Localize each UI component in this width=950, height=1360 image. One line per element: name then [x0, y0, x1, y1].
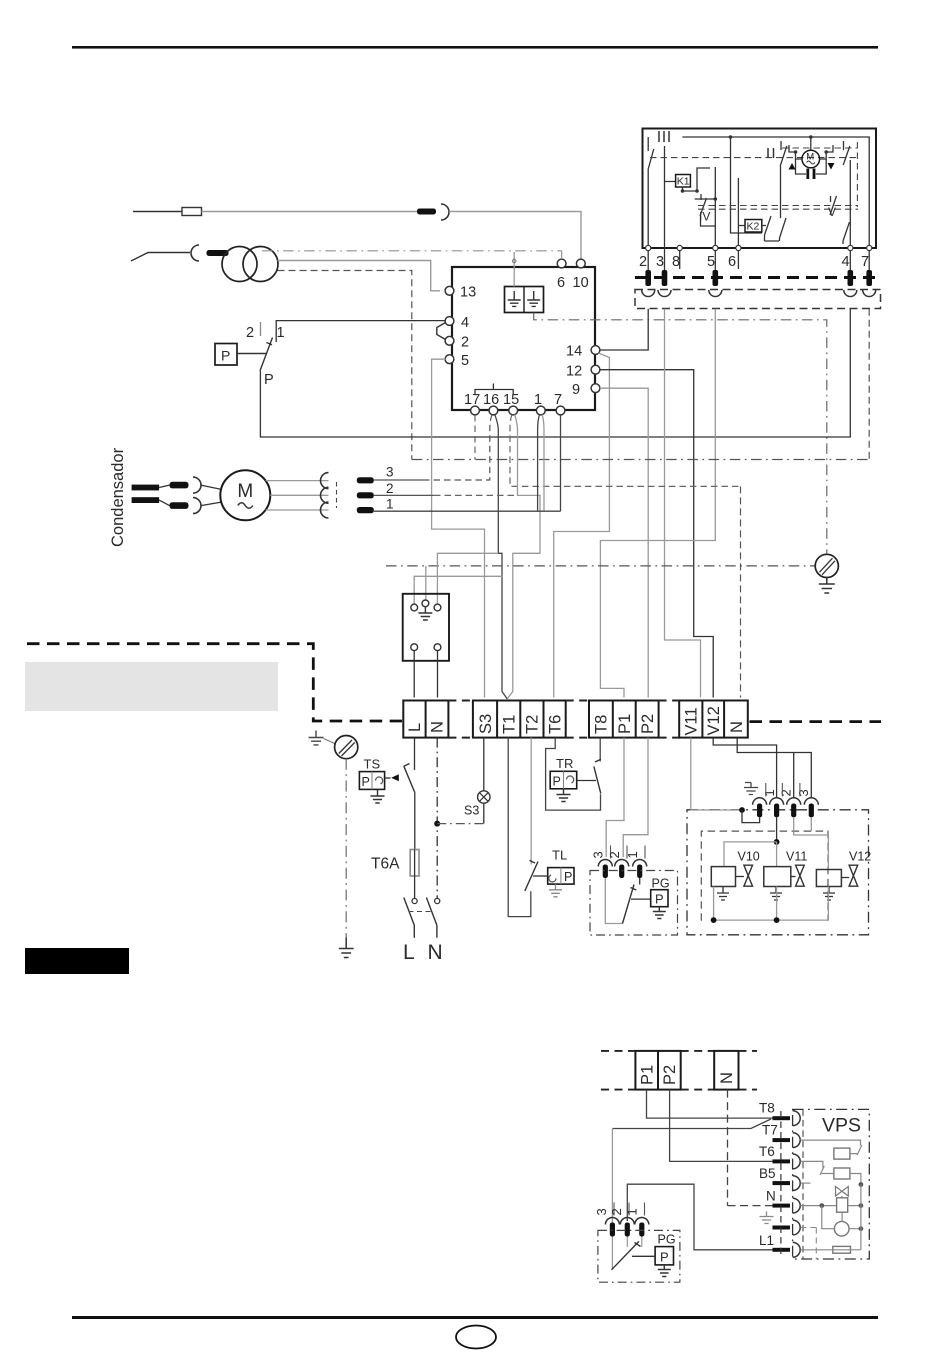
connector pin bar (spark): [207, 250, 229, 256]
svg-text:PG: PG: [658, 1233, 676, 1247]
ignition transformer T: [222, 247, 257, 282]
TR contact arm: [594, 759, 601, 793]
boundary dashed line right of N: [750, 720, 882, 723]
ground below lower PG box: [658, 1265, 671, 1277]
PG sockets: [598, 860, 612, 867]
screw terminal left: [335, 736, 358, 759]
connector socket (spark): [191, 245, 199, 261]
svg-text:2: 2: [461, 335, 469, 351]
wire T2 to TL contact: [530, 738, 532, 865]
wire relay socket 5 to P1: [600, 309, 715, 698]
strip labels: [406, 706, 746, 735]
wire transformer to pin 13: [278, 261, 441, 291]
VPS pump circle: [834, 1221, 849, 1236]
wire relay socket 7 dashed drop: [868, 309, 870, 460]
ground below PG box: [653, 907, 666, 919]
svg-text:N: N: [428, 941, 443, 964]
thick dashed plug line: [635, 276, 881, 279]
svg-text:17: 17: [464, 392, 480, 408]
contact IV: [700, 194, 715, 226]
wire col 6 riser: [731, 137, 763, 248]
screw terminal right: [815, 554, 838, 577]
wire T1 arrow left line: [502, 576, 507, 699]
main switch pole N: [435, 898, 440, 903]
svg-text:T8: T8: [759, 1101, 775, 1116]
capacitor leads: [159, 485, 169, 506]
dashed frame right: [782, 142, 857, 207]
wire connector 2 to coil V12: [794, 817, 829, 869]
ionization electrode: [133, 211, 182, 213]
switch coupling dashes: [409, 911, 433, 913]
pushbutton lead: [237, 353, 266, 355]
svg-text:8: 8: [672, 254, 680, 270]
wire pin9 to P2: [600, 388, 648, 697]
direction triangle up: [789, 163, 796, 170]
wire plug centre pin to earth chain: [425, 566, 427, 600]
chain ground line lower: [386, 565, 815, 567]
pin 12: [591, 365, 600, 374]
svg-text:P: P: [564, 870, 572, 884]
7-pin plug box: [403, 594, 449, 661]
svg-text:2: 2: [778, 789, 793, 796]
wire ionization line to connector: [202, 211, 418, 213]
connector bars capacitor: [170, 482, 189, 489]
wire T7 junction diagonal: [612, 1119, 771, 1129]
svg-text:T1: T1: [501, 715, 519, 734]
boundary dashed line left: [27, 644, 402, 721]
mechanical dashed link upper: [650, 157, 856, 159]
capacitor in relay box: [796, 159, 827, 174]
chain screw to earth bottom: [345, 759, 347, 938]
valve connector earth symbol: [744, 783, 758, 795]
svg-text:L: L: [403, 941, 415, 964]
ground below TS: [371, 789, 385, 803]
VPS right rail: [860, 1185, 862, 1250]
pin 7: [556, 406, 565, 415]
svg-text:2: 2: [246, 325, 254, 341]
VPS relay 1: [834, 1148, 850, 1159]
TS contact arm: [404, 764, 415, 793]
VPS PE dashed stub: [800, 1228, 816, 1260]
earth block: [505, 287, 544, 313]
capacitor plates: [132, 485, 160, 491]
svg-text:V10: V10: [738, 850, 760, 864]
wire V12 to valve connector 1: [713, 738, 776, 799]
svg-text:10: 10: [573, 275, 589, 291]
pin 1: [536, 406, 545, 415]
socket housing dashed box: [635, 290, 881, 309]
wire chain into earth block: [513, 252, 515, 287]
svg-text:14: 14: [566, 344, 582, 360]
svg-text:2: 2: [609, 1208, 624, 1215]
svg-text:T8: T8: [593, 715, 611, 734]
wires sockets to motor: [201, 485, 222, 506]
wire pin16 right strand to T1 arrow: [495, 415, 502, 577]
terminal group V11 V12 N: [679, 701, 748, 738]
motor side leads with capacitor: [789, 145, 833, 159]
wire pin1 strands to T6 run: [538, 415, 540, 512]
connector pin bars: [645, 270, 651, 286]
motor M: [220, 470, 270, 520]
svg-text:TR: TR: [556, 756, 573, 771]
spark electrode: [131, 253, 190, 262]
svg-text:1: 1: [534, 392, 542, 408]
wire pin15 right strand to T1 arrow: [507, 415, 540, 699]
svg-text:3: 3: [591, 851, 606, 858]
svg-text:P1: P1: [616, 714, 634, 734]
pin 5: [445, 355, 454, 364]
svg-text:P: P: [660, 1250, 669, 1265]
valve connector sockets: [753, 798, 767, 805]
wire T1 to TL contact: [508, 738, 531, 917]
svg-text:K2: K2: [747, 221, 760, 233]
svg-text:16: 16: [483, 392, 499, 408]
ground below TR: [557, 789, 571, 802]
connector gang dashed: [336, 482, 338, 508]
svg-text:1: 1: [625, 1208, 640, 1215]
pin 15: [509, 406, 518, 415]
motor leads right: [266, 481, 329, 510]
svg-text:3: 3: [796, 789, 811, 796]
svg-text:L1: L1: [759, 1233, 774, 1248]
relay coil K1: [676, 175, 691, 188]
svg-text:P1: P1: [638, 1065, 656, 1085]
pushbutton contact arm: [260, 338, 273, 371]
svg-text:T7: T7: [762, 1123, 778, 1138]
pushbutton P: [215, 344, 237, 366]
grey highlight rectangle: [25, 662, 278, 711]
svg-text:P: P: [655, 892, 664, 907]
wire T8 to TR contact: [599, 738, 601, 762]
svg-text:N: N: [718, 1072, 736, 1084]
svg-text:9: 9: [572, 382, 580, 398]
wire relay socket 3 to V11: [665, 309, 701, 698]
VPS chain box: [793, 1109, 870, 1259]
lower terminal N: [714, 1051, 738, 1090]
svg-text:M: M: [806, 152, 814, 163]
pin 9: [591, 384, 600, 393]
valve connector pin bars: [757, 804, 762, 818]
wire TS to fuse: [414, 793, 416, 850]
thermostat TR box: [550, 771, 577, 789]
contact V: [830, 196, 837, 215]
motor line 1: [374, 510, 561, 512]
svg-text:M: M: [237, 481, 253, 502]
PG dash-dot box: [590, 871, 678, 936]
svg-text:T6A: T6A: [371, 856, 400, 873]
wire T6 to TR loop: [546, 738, 601, 811]
inner top rail: [682, 137, 869, 248]
wire dashed drop to N terminal: [740, 486, 742, 697]
svg-text:12: 12: [566, 364, 582, 380]
wire P2 to VPS T6: [670, 1090, 774, 1162]
VPS valve symbol: [836, 1187, 849, 1197]
wire P1 to VPS T8: [647, 1090, 774, 1119]
wire col 5: [714, 167, 716, 248]
svg-text:PG: PG: [652, 877, 670, 891]
lower PG pin bars: [610, 1223, 615, 1237]
terminal group T8 P1 P2: [589, 701, 659, 738]
lower terminal P1: [635, 1051, 680, 1090]
jumper bracket pins 4-2: [437, 323, 446, 340]
svg-text:1: 1: [386, 497, 394, 512]
junction dot N line: [434, 821, 440, 827]
black redaction rectangle: [25, 948, 129, 974]
thermostat TL box: [548, 868, 574, 885]
label III: [659, 131, 669, 142]
TS lead and arrow: [385, 777, 391, 779]
pin stubs through bottom: [648, 248, 869, 270]
control box outer: [452, 267, 595, 410]
motor connector sockets: [321, 473, 329, 489]
wire ionization to pin 10: [449, 212, 581, 260]
thermostat TS box: [359, 772, 384, 790]
pin 14: [591, 346, 600, 355]
valve section chain box: [687, 810, 869, 935]
svg-text:3: 3: [594, 1208, 609, 1215]
svg-text:4: 4: [461, 315, 469, 331]
connector sockets capacitor: [193, 477, 201, 493]
wire pin14 to relay socket 2: [600, 309, 648, 350]
contact III (col 2): [648, 137, 654, 248]
relay coil K2: [745, 220, 762, 233]
wire chain transformer to pin 6 riser: [262, 250, 562, 252]
svg-text:P2: P2: [639, 714, 657, 734]
wire col 3: [665, 146, 676, 248]
wire connector 1 to coils: [776, 817, 778, 842]
pin 2: [445, 336, 454, 345]
svg-text:V12: V12: [705, 706, 723, 735]
wire pin7 to motor line 1: [560, 415, 562, 511]
wire T7 down to PG switch: [611, 1129, 613, 1270]
lower PG stubs below bars: [627, 1237, 642, 1248]
svg-text:T6: T6: [759, 1144, 775, 1159]
lower PG sockets: [605, 1218, 619, 1225]
svg-text:1: 1: [277, 325, 285, 341]
svg-text:N: N: [728, 721, 746, 733]
svg-text:IV: IV: [699, 210, 710, 224]
motor M in relay box: [802, 150, 820, 168]
wire pin5 to S3: [432, 359, 485, 697]
wire dashed transformer secondary: [278, 271, 412, 460]
K2 leads: [738, 225, 766, 227]
pin 13: [445, 286, 454, 295]
svg-text:5: 5: [461, 353, 469, 369]
pin 16: [489, 406, 498, 415]
top rule: [72, 46, 878, 49]
connector socket (ionization): [441, 204, 449, 220]
wire P2 to PG connector 2: [623, 738, 648, 857]
svg-text:2: 2: [607, 851, 622, 858]
chain S3 lamp return: [437, 823, 484, 825]
pin 6: [557, 259, 566, 268]
wire plug right pin to T1 arrow joint: [437, 553, 498, 604]
wire connector 3 stub: [810, 817, 812, 831]
strip dashed gaps: [448, 701, 679, 738]
pin 17: [471, 406, 480, 415]
svg-text:V11: V11: [786, 850, 807, 864]
svg-text:P2: P2: [661, 1065, 679, 1085]
VPS N row: [800, 1205, 861, 1207]
svg-text:N: N: [429, 721, 447, 733]
motor connector pin bars: [357, 477, 374, 483]
svg-text:Condensador: Condensador: [109, 447, 127, 547]
svg-text:P: P: [221, 348, 230, 364]
svg-text:S3: S3: [477, 714, 495, 734]
contact lower right: [843, 222, 850, 244]
earth symbol left: [309, 731, 324, 745]
svg-text:2: 2: [386, 481, 394, 496]
wire P arm to relay socket 4: [260, 309, 850, 437]
wire plug left pin to T1 arrow: [414, 576, 502, 604]
svg-text:13: 13: [460, 285, 476, 301]
svg-text:N: N: [766, 1189, 776, 1204]
PG switch: [605, 878, 622, 924]
terminal group L N: [403, 701, 448, 738]
wire pin16 left strand to motor line 3: [427, 415, 492, 481]
svg-text:TS: TS: [364, 757, 381, 772]
svg-text:K1: K1: [677, 176, 690, 188]
earth bottom left: [339, 938, 354, 958]
sockets: [642, 290, 655, 297]
wire N dashed to VPS N: [728, 1090, 774, 1206]
ground below screw: [819, 578, 835, 594]
K1 leads and nodes: [683, 168, 711, 191]
svg-text:4: 4: [842, 254, 850, 270]
valve bottom rail: [714, 887, 829, 921]
svg-text:6: 6: [728, 254, 736, 270]
VPS coil rect: [837, 1198, 848, 1212]
VPS B5 stub: [800, 1182, 810, 1184]
motor line 3: [374, 479, 427, 481]
svg-text:S3: S3: [464, 804, 479, 818]
svg-text:T6: T6: [546, 715, 564, 734]
VPS earth symbol: [760, 1212, 774, 1224]
svg-text:P: P: [553, 775, 561, 789]
plug earth symbol: [418, 607, 432, 620]
terminal strip main: [403, 701, 748, 738]
motor line 2: [374, 494, 434, 496]
svg-text:P: P: [264, 372, 274, 388]
lamp S3: [483, 738, 485, 791]
bottom rule: [72, 1316, 878, 1319]
label II: [768, 148, 774, 158]
fuse T6A: [410, 850, 419, 877]
wire pin17 dashed drop: [474, 415, 476, 460]
svg-text:V11: V11: [683, 707, 701, 735]
PG pin bars: [603, 865, 608, 879]
svg-text:V12: V12: [849, 850, 871, 864]
wire N dash-dot: [436, 738, 438, 899]
wire pin14 branch to T6: [554, 353, 610, 698]
svg-text:P: P: [362, 775, 370, 789]
svg-text:1: 1: [625, 851, 640, 858]
svg-text:VPS: VPS: [822, 1115, 861, 1137]
wire pin12 to V12: [600, 370, 713, 698]
direction triangle down: [828, 163, 835, 170]
svg-text:5: 5: [707, 254, 715, 270]
svg-text:1: 1: [762, 789, 777, 796]
relay box outer: [643, 129, 877, 249]
wire N to valve connectors 2 and 3: [737, 738, 811, 799]
svg-text:3: 3: [656, 254, 664, 270]
svg-text:3: 3: [386, 465, 394, 480]
lower terminal strip dashes: [601, 1051, 757, 1090]
wire pin15 left strand dashed to N: [510, 415, 741, 487]
svg-text:B5: B5: [759, 1166, 776, 1181]
bracket over 17 16 15: [475, 384, 513, 395]
connector pin bar (ionization): [417, 209, 436, 215]
svg-text:7: 7: [861, 254, 869, 270]
svg-text:T2: T2: [524, 715, 542, 734]
lower PG dash-dot box: [598, 1230, 680, 1282]
chain line horizontal upper: [412, 459, 869, 461]
mechanical dashed link lower (double): [698, 206, 858, 210]
VPS inner dashed rail: [802, 1109, 804, 1259]
VPS dashed terminal rail: [780, 1111, 782, 1255]
valve section inner dashed box: [701, 831, 828, 921]
wire L down to TS: [414, 738, 416, 770]
contact I: [843, 141, 850, 165]
wire V11 to valve earth pin: [691, 738, 742, 810]
pin 4: [445, 317, 454, 326]
VPS sockets: [793, 1111, 800, 1126]
ground below TL: [549, 884, 562, 897]
wire P1 to PG connector 3: [606, 738, 624, 857]
svg-text:7: 7: [554, 392, 562, 408]
VPS fuse: [833, 1246, 851, 1253]
plug bottom leads: [414, 651, 437, 698]
contact after K2: [765, 216, 780, 241]
wire PG connector 2 to VPS L1: [627, 1184, 773, 1250]
VPS relay 2: [834, 1168, 850, 1179]
main switch pole L: [412, 898, 417, 903]
svg-text:6: 6: [557, 275, 565, 291]
svg-text:L: L: [406, 723, 424, 732]
VPS terminal bars: [773, 1116, 791, 1120]
lower PG switch: [612, 1241, 641, 1269]
svg-text:2: 2: [639, 254, 647, 270]
svg-text:V: V: [828, 205, 836, 219]
svg-text:15: 15: [503, 392, 519, 408]
wire P contact to pin 4: [276, 321, 445, 342]
pin 10: [576, 259, 585, 268]
svg-text:TL: TL: [552, 848, 567, 863]
ellipse mark bottom center: [456, 1326, 496, 1349]
contact II: [780, 141, 787, 241]
wire chain earth block to screw: [534, 313, 827, 554]
TL contact arm: [525, 860, 538, 891]
terminal group S3 T1 T2 T6: [473, 701, 566, 738]
